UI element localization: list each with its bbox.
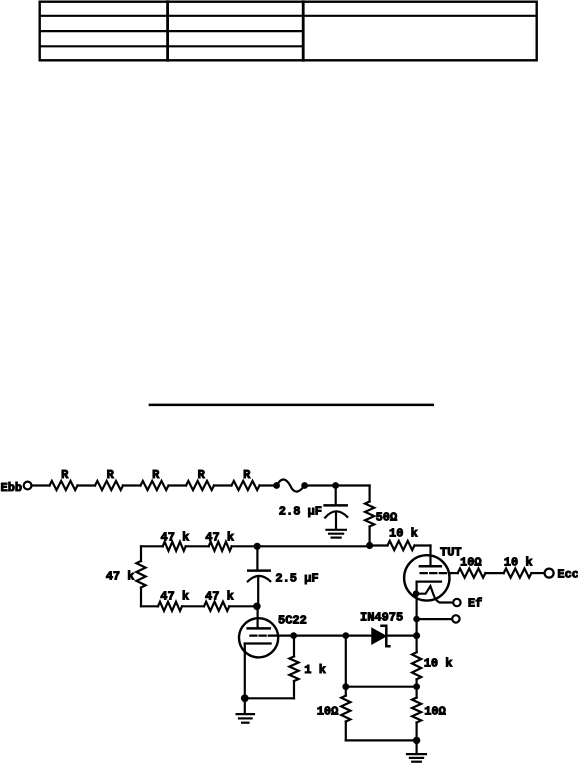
svg-text:R: R	[107, 468, 115, 482]
svg-text:10Ω: 10Ω	[460, 556, 482, 570]
svg-text:47 k: 47 k	[160, 590, 189, 604]
svg-text:10Ω: 10Ω	[424, 704, 446, 718]
svg-text:R: R	[152, 468, 160, 482]
svg-text:R: R	[198, 468, 206, 482]
svg-text:2.5 µF: 2.5 µF	[275, 572, 318, 586]
svg-text:10 k: 10 k	[424, 657, 453, 671]
svg-text:5C22: 5C22	[278, 614, 307, 628]
svg-text:TUT: TUT	[440, 545, 462, 559]
svg-text:IN4975: IN4975	[360, 611, 403, 625]
svg-text:2.8 µF: 2.8 µF	[279, 504, 322, 518]
svg-text:10Ω: 10Ω	[317, 704, 339, 718]
svg-text:R: R	[243, 468, 251, 482]
svg-text:47 k: 47 k	[205, 531, 234, 545]
svg-text:47 k: 47 k	[205, 590, 234, 604]
svg-text:10 k: 10 k	[504, 556, 533, 570]
svg-text:Ebb: Ebb	[1, 481, 23, 495]
svg-text:R: R	[61, 468, 69, 482]
svg-text:50Ω: 50Ω	[376, 511, 398, 525]
svg-text:Ecc: Ecc	[557, 568, 578, 582]
svg-text:Ef: Ef	[468, 597, 482, 611]
svg-text:47 k: 47 k	[106, 569, 135, 583]
svg-text:1 k: 1 k	[304, 663, 326, 677]
svg-text:10 k: 10 k	[389, 527, 418, 541]
svg-text:47 k: 47 k	[161, 531, 190, 545]
